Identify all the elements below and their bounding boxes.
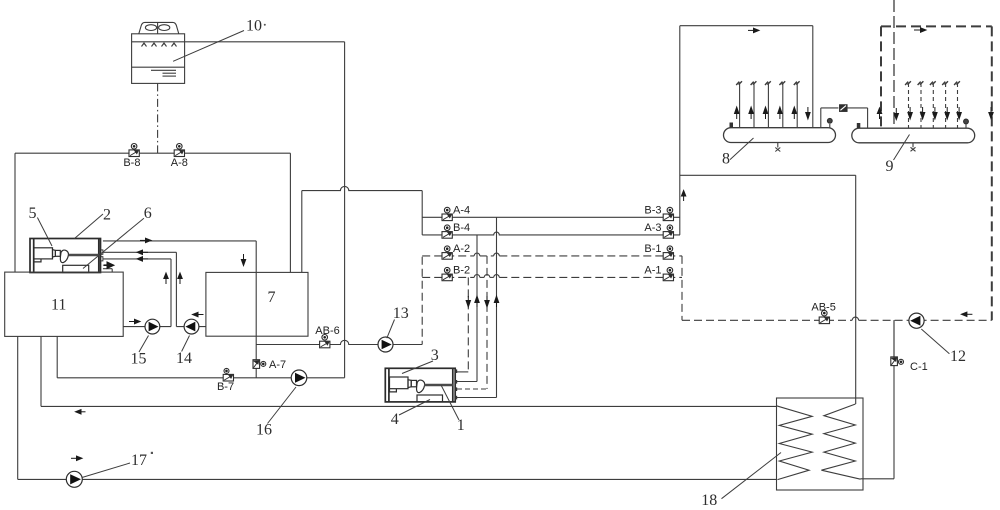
svg-text:7: 7	[268, 289, 276, 306]
svg-text:9: 9	[886, 158, 894, 175]
svg-text:B-3: B-3	[644, 204, 661, 216]
svg-text:B-8: B-8	[123, 157, 140, 169]
svg-text:A-1: A-1	[644, 264, 661, 276]
svg-text:A-4: A-4	[453, 204, 470, 216]
svg-text:12: 12	[950, 348, 966, 365]
svg-text:17: 17	[131, 452, 147, 469]
svg-text:AB-6: AB-6	[315, 325, 339, 337]
svg-text:11: 11	[51, 296, 66, 313]
svg-text:14: 14	[176, 350, 192, 367]
svg-text:10: 10	[246, 18, 262, 35]
svg-text:16: 16	[256, 422, 272, 439]
svg-text:B-7: B-7	[217, 381, 234, 393]
svg-text:13: 13	[393, 305, 409, 322]
svg-text:A-2: A-2	[453, 243, 470, 255]
svg-text:AB-5: AB-5	[811, 302, 835, 314]
svg-text:18: 18	[701, 492, 717, 509]
svg-text:1: 1	[457, 417, 465, 434]
svg-text:4: 4	[391, 411, 399, 428]
svg-text:B-1: B-1	[644, 243, 661, 255]
svg-text:A-3: A-3	[644, 222, 661, 234]
svg-text:B-2: B-2	[453, 264, 470, 276]
svg-text:A-8: A-8	[171, 157, 188, 169]
svg-text:15: 15	[131, 351, 147, 368]
svg-text:5: 5	[29, 205, 37, 222]
svg-text:8: 8	[722, 151, 730, 168]
svg-text:2: 2	[103, 207, 111, 224]
svg-text:6: 6	[144, 205, 152, 222]
svg-text:B-4: B-4	[453, 222, 470, 234]
svg-text:3: 3	[431, 347, 439, 364]
svg-text:A-7: A-7	[269, 359, 286, 371]
svg-text:C-1: C-1	[910, 361, 928, 373]
